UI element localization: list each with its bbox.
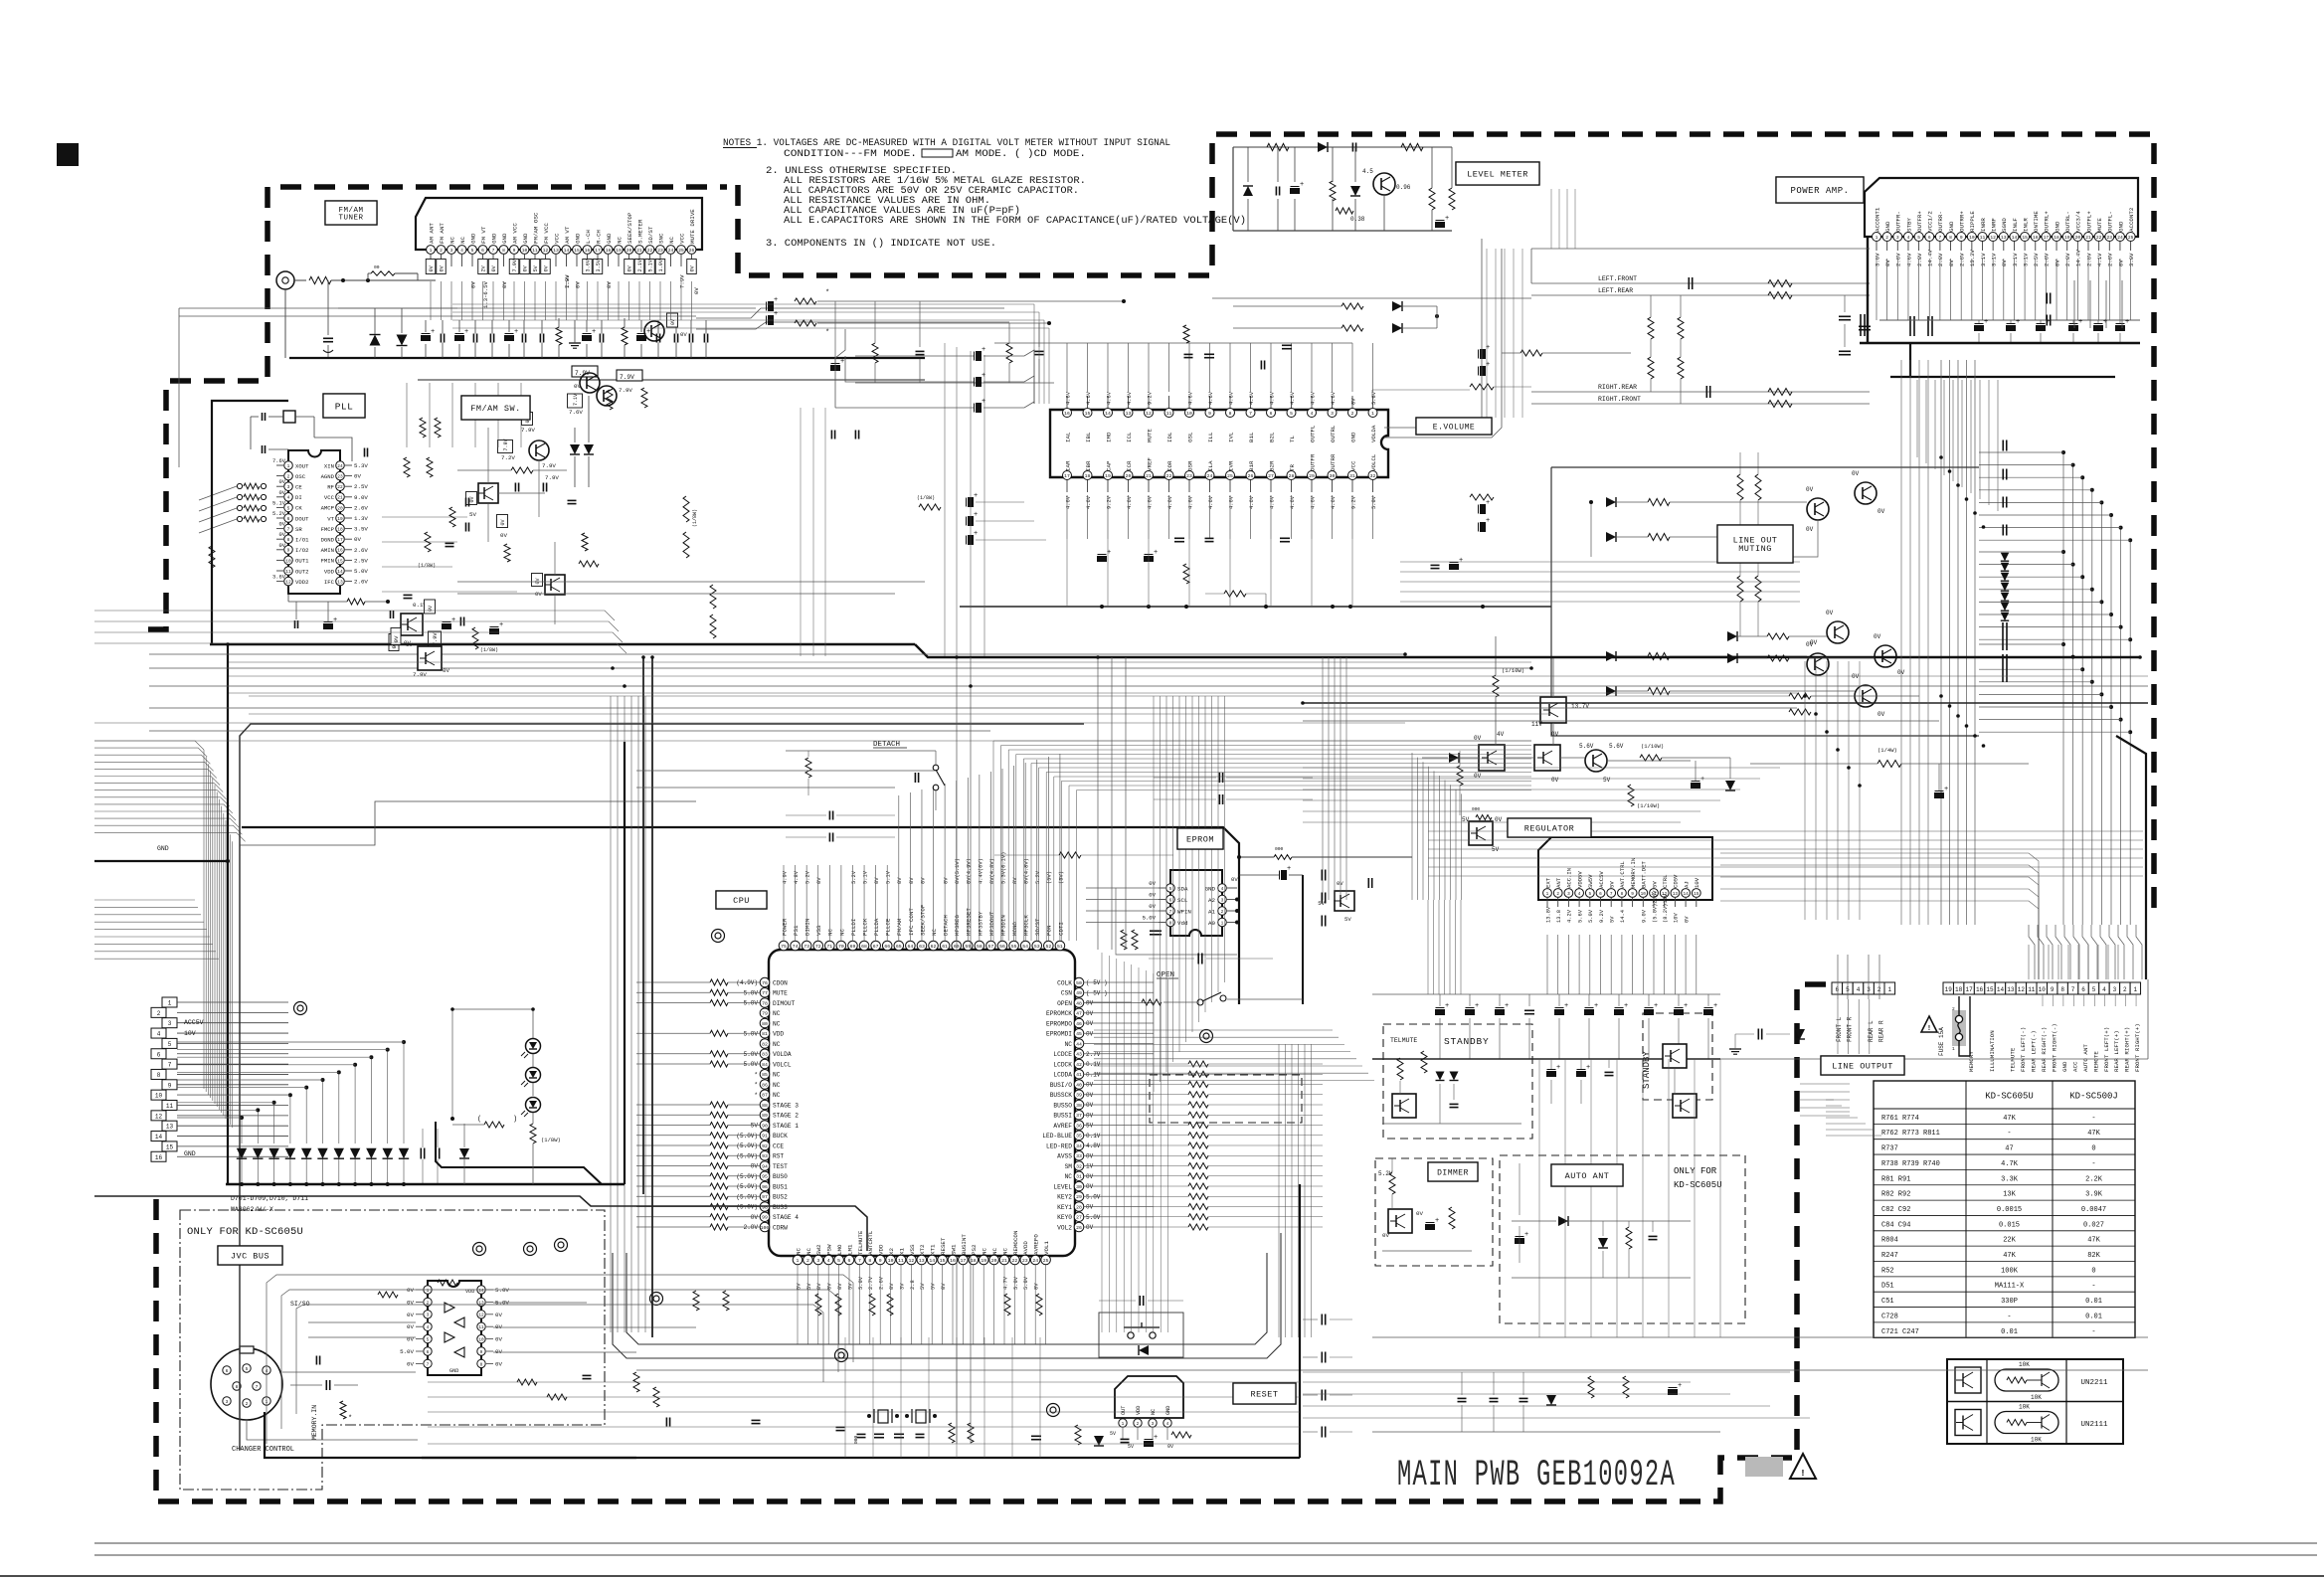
svg-text:0V: 0V [469, 496, 475, 502]
svg-text:R761 R774: R761 R774 [1881, 1115, 1919, 1123]
svg-text:20: 20 [337, 505, 343, 511]
wire regulator pin drops to cap bank [1546, 935, 1548, 994]
svg-text:13: 13 [2007, 986, 2015, 993]
svg-text:+: + [1586, 1064, 1590, 1072]
svg-text:12: 12 [155, 1113, 163, 1120]
svg-text:5.2V: 5.2V [1378, 1170, 1393, 1177]
svg-text:R81 R91: R81 R91 [1881, 1175, 1910, 1183]
svg-text:29: 29 [1076, 1194, 1082, 1200]
label RESET [1233, 1383, 1296, 1404]
resistor right of pin1 [1470, 384, 1494, 390]
svg-text:93: 93 [762, 1153, 768, 1159]
svg-text:0V: 0V [1350, 398, 1356, 405]
svg-text:3.1V: 3.1V [1990, 253, 1997, 266]
tuner pin 8 GND [499, 246, 508, 255]
detach switch [933, 765, 939, 771]
PLL pin 23 AGND [336, 471, 345, 480]
level meter resistors right [1429, 188, 1435, 210]
CPU pin 84 VOLCL [760, 1059, 770, 1069]
svg-text:LED-BLUE: LED-BLUE [1042, 1133, 1072, 1140]
wire 3 coupling caps to E.VOLUME left [977, 352, 982, 361]
dashed outline bottom frame [156, 984, 1830, 1501]
svg-text:7: 7 [1610, 892, 1613, 897]
E.VOLUME pin 6 B2L [1267, 409, 1276, 418]
ecap right of boxed transistor [443, 624, 451, 629]
svg-text:13: 13 [1673, 892, 1679, 897]
cap bottom pll [459, 617, 461, 626]
svg-text:4.6V: 4.6V [1290, 495, 1296, 509]
svg-text:10K: 10K [2019, 1404, 2030, 1411]
CPU pin 3 SW2 [813, 1255, 823, 1265]
svg-text:0V: 0V [407, 1360, 414, 1367]
svg-text:19: 19 [1105, 473, 1111, 479]
dashed box only for KD-SC605U auto-ant block [1500, 1155, 1745, 1323]
E.VOLUME pin 21 VREF [1145, 471, 1154, 480]
E.VOLUME pin 18 IBR [1083, 471, 1092, 480]
svg-text:9.0V: 9.0V [1642, 909, 1648, 923]
svg-text:OUTRL+: OUTRL+ [2044, 211, 2051, 232]
svg-text:0V: 0V [1948, 260, 1955, 266]
caps right below evolume [1431, 564, 1440, 566]
svg-text:AVREFO: AVREFO [1033, 1234, 1040, 1255]
svg-text:VCC: VCC [324, 494, 335, 501]
E.VOLUME pin 29 OUTFR [1308, 471, 1317, 480]
svg-text:NC: NC [459, 237, 466, 244]
svg-text:5: 5 [168, 1041, 172, 1048]
jvc nested frame 2 [281, 1290, 838, 1429]
E.VOLUME pin 23 GSR [1185, 471, 1194, 480]
svg-text:95: 95 [762, 1174, 768, 1180]
svg-text:NC: NC [1065, 1041, 1073, 1048]
CPU pin 98 BUS3 [760, 1202, 770, 1212]
bold line right side down [2116, 736, 2146, 979]
svg-text:BUS3: BUS3 [773, 1204, 788, 1211]
jvc nested frame 3 [296, 1305, 823, 1414]
junction dots power bundle [1939, 455, 1943, 459]
svg-text:91: 91 [762, 1134, 768, 1140]
svg-text:8: 8 [287, 537, 290, 543]
dashed box resistor pack right of CPU [1150, 1075, 1302, 1123]
svg-text:15: 15 [1085, 411, 1091, 417]
svg-text:+: + [982, 372, 985, 380]
svg-text:AGND: AGND [321, 473, 335, 480]
JVC IC pin 12 [477, 1311, 485, 1318]
svg-text:5V: 5V [1110, 1431, 1116, 1437]
label E.VOLUME top layer [1416, 418, 1492, 435]
svg-text:7.9V: 7.9V [619, 387, 632, 394]
svg-text:12: 12 [909, 1258, 915, 1264]
svg-text:XOUT: XOUT [295, 462, 309, 469]
svg-text:9.2V: 9.2V [1147, 391, 1153, 405]
bold staircase wire B [94, 1196, 867, 1251]
svg-text:9: 9 [168, 1082, 172, 1089]
ground bus under tuner bold [289, 357, 925, 359]
svg-text:STAGE 3: STAGE 3 [773, 1102, 799, 1109]
label EPROM top layer [1177, 828, 1223, 849]
svg-text:90: 90 [762, 1123, 768, 1129]
svg-text:+: + [1154, 1434, 1158, 1442]
reset IC pin 1 OUT [1119, 1419, 1127, 1427]
svg-text:2.8: 2.8 [910, 1280, 916, 1290]
svg-text:5.0V: 5.0V [495, 1287, 509, 1294]
wire fan right side [2062, 452, 2064, 925]
svg-text:PSW: PSW [826, 1244, 833, 1255]
svg-text:4.6V: 4.6V [1310, 391, 1316, 405]
wire regulator area top rails [1303, 702, 2148, 704]
power amp pin 14 INLF [2010, 233, 2019, 242]
svg-text:5V: 5V [1492, 846, 1500, 853]
transistor Q701 tuner [644, 321, 664, 341]
svg-text:13.8: 13.8 [1556, 910, 1562, 923]
level meter caps mid [1275, 187, 1277, 196]
svg-text:BUS0: BUS0 [773, 1173, 788, 1180]
svg-text:0V: 0V [500, 519, 506, 525]
svg-text:97: 97 [762, 1194, 768, 1200]
svg-text:MEMORY.IN: MEMORY.IN [1630, 858, 1637, 888]
tuner pin 22 SD/ST [645, 246, 654, 255]
svg-text:2.8V: 2.8V [2064, 253, 2071, 266]
svg-text:IVL: IVL [1227, 432, 1234, 442]
svg-text:(5V): (5V) [1047, 871, 1053, 884]
resistors on channels [1768, 280, 1792, 287]
wire auto ant feed [1519, 1163, 1520, 1215]
power amp pin 18 GND [2053, 233, 2061, 242]
horizontal bundle to detach top [993, 740, 1531, 742]
bold diode bus [226, 1183, 625, 1185]
wire evolume to notes bottom [1232, 147, 1234, 231]
svg-text:56: 56 [999, 944, 1005, 950]
svg-text:14: 14 [1997, 986, 2005, 993]
svg-text:0V: 0V [944, 877, 950, 884]
svg-text:0V: 0V [1810, 639, 1818, 646]
svg-text:12: 12 [285, 580, 291, 586]
svg-text:14.4: 14.4 [1620, 910, 1626, 923]
svg-text:24: 24 [337, 463, 343, 469]
svg-text:OUTRL: OUTRL [1330, 425, 1337, 442]
svg-text:AM VT: AM VT [564, 226, 571, 244]
E.VOLUME pin 32 VOLCL [1368, 471, 1377, 480]
svg-text:VCC: VCC [553, 233, 560, 244]
svg-text:62: 62 [931, 944, 937, 950]
svg-text:5.6V: 5.6V [1579, 743, 1594, 750]
label POWER AMP. [1776, 177, 1864, 203]
caps pair mid [1218, 773, 1220, 783]
E.VOLUME pin 20 ICR [1124, 471, 1133, 480]
svg-text:4.4V(0V): 4.4V(0V) [978, 858, 983, 884]
wire evolume right band [1400, 561, 1800, 563]
CPU pin 18 PS2 [969, 1255, 979, 1265]
svg-text:ALL E.CAPACITORS ARE SHOWN IN: ALL E.CAPACITORS ARE SHOWN IN THE FORM O… [784, 215, 1246, 226]
svg-text:0.01: 0.01 [2085, 1298, 2102, 1306]
svg-text:BATT.DET: BATT.DET [1641, 861, 1648, 888]
page corner registration square [57, 143, 79, 166]
svg-text:PLLDA: PLLDA [873, 918, 880, 936]
power amp pin 20 VCC3/4 [2073, 233, 2082, 242]
svg-text:LED-RED: LED-RED [1046, 1142, 1072, 1149]
svg-text:1: 1 [287, 463, 290, 469]
tuner pin 17 voltage 3.5V [593, 260, 603, 274]
svg-text:8: 8 [1949, 235, 1952, 241]
PLL pin 11 OUT2 [284, 567, 293, 576]
CPU pin 93 RST [760, 1150, 770, 1160]
label AUTO ANT top layer [1551, 1164, 1623, 1186]
svg-text:0V: 0V [495, 1336, 502, 1343]
svg-text:FM VCC: FM VCC [543, 223, 550, 244]
svg-text:5.0V: 5.0V [1086, 1214, 1101, 1221]
CPU pin 30 LEVEL [1074, 1181, 1084, 1191]
svg-text:*: * [825, 289, 829, 297]
svg-text:GND: GND [184, 1150, 196, 1157]
E.VOLUME pin 5 TL [1287, 409, 1296, 418]
CPU pin 6 LM1 [844, 1255, 854, 1265]
svg-text:+: + [1556, 1064, 1560, 1072]
svg-text:0V: 0V [690, 264, 696, 271]
cap at antenna [323, 337, 333, 339]
svg-text:EPROM: EPROM [1186, 834, 1214, 844]
svg-text:5.2V: 5.2V [851, 870, 857, 884]
svg-text:0V: 0V [1034, 1283, 1040, 1290]
svg-text:I/O2: I/O2 [295, 547, 308, 554]
svg-text:3.1V: 3.1V [2012, 253, 2019, 266]
svg-text:3.5V: 3.5V [354, 526, 368, 533]
svg-text:4.6V: 4.6V [1269, 391, 1275, 405]
svg-text:0V: 0V [1884, 260, 1891, 266]
svg-text:9.2V: 9.2V [1599, 909, 1605, 923]
level meter diode [1318, 142, 1328, 152]
E.VOLUME IC body [1050, 410, 1388, 477]
electrolytic capacitor tuner decoupling [583, 336, 592, 341]
PLL pin 8 I/O1 [284, 535, 293, 544]
tuner pin 2 FM ANT [437, 246, 446, 255]
svg-text:20: 20 [991, 1258, 997, 1264]
svg-text:67: 67 [873, 944, 879, 950]
cap above push switch [1139, 1296, 1141, 1306]
svg-text:76: 76 [762, 980, 768, 986]
wire verticals from tuner mid down [944, 343, 946, 656]
wire horizontal rails tuner area [179, 307, 756, 309]
tuner pin 14 AM VT [562, 246, 571, 255]
svg-text:(1/8W): (1/8W) [418, 563, 436, 569]
svg-text:5.1V: 5.1V [862, 870, 868, 884]
tuner pin 2 voltage 0V [437, 260, 447, 274]
svg-text:MUTE: MUTE [1146, 429, 1153, 442]
JVC IC pin 7 [424, 1359, 432, 1367]
svg-text:4.7V: 4.7V [1002, 1276, 1008, 1290]
svg-text:3.9K: 3.9K [2085, 1191, 2103, 1199]
svg-text:75: 75 [781, 944, 787, 950]
svg-text:BUSI/O: BUSI/O [1050, 1082, 1073, 1089]
diode row D701-D711 [237, 1148, 247, 1158]
svg-text:5V: 5V [1609, 881, 1616, 888]
svg-text:2: 2 [246, 1401, 249, 1407]
svg-text:COLK: COLK [1057, 979, 1072, 986]
PLL pin 12 VDD2 [284, 577, 293, 586]
auto ant diode v [1598, 1238, 1608, 1248]
svg-text:(8.2V)10V: (8.2V)10V [1663, 893, 1669, 923]
svg-text:17: 17 [961, 1258, 967, 1264]
svg-text:!: ! [1927, 1025, 1931, 1033]
svg-text:NC: NC [773, 1010, 781, 1017]
svg-text:2.6V: 2.6V [879, 1276, 885, 1290]
svg-text:0V: 0V [1012, 877, 1018, 884]
svg-text:2: 2 [440, 248, 443, 254]
svg-text:13.8V: 13.8V [1545, 906, 1551, 923]
resistors mid pll [425, 532, 431, 552]
svg-text:7.6V: 7.6V [569, 409, 583, 416]
svg-text:0V: 0V [544, 264, 550, 271]
resistor tuner decoupling [556, 327, 562, 345]
svg-text:(5.0V): (5.0V) [736, 1204, 758, 1211]
svg-text:52: 52 [1045, 944, 1051, 950]
svg-text:10: 10 [2039, 986, 2047, 993]
svg-text:+: + [1435, 1217, 1439, 1225]
svg-text:3.1V: 3.1V [2022, 253, 2029, 266]
power amp pin 19 OUTRL- [2062, 233, 2071, 242]
svg-text:63: 63 [919, 944, 925, 950]
svg-text:CONDITION---FM MODE.: CONDITION---FM MODE. [784, 148, 917, 159]
svg-text:4.6V: 4.6V [1290, 391, 1296, 405]
svg-text:89: 89 [762, 1113, 768, 1119]
svg-text:FRONT LEFT(+): FRONT LEFT(+) [2103, 1027, 2110, 1072]
tuner pin 1 AM ANT [427, 246, 436, 255]
svg-text:7: 7 [1939, 235, 1942, 241]
svg-text:+: + [1475, 1002, 1479, 1010]
svg-text:58: 58 [977, 944, 983, 950]
svg-text:11: 11 [898, 1258, 904, 1264]
svg-text:47K: 47K [2087, 1130, 2100, 1138]
CPU pin 61 DETACH [940, 941, 950, 951]
svg-text:BUSSO: BUSSO [1053, 1102, 1072, 1109]
svg-text:KEY1: KEY1 [1057, 1204, 1072, 1211]
svg-text:19: 19 [2064, 235, 2070, 241]
boxed transistor pll bottom [401, 614, 423, 635]
CPU pin 7 TELMUTE [855, 1255, 865, 1265]
tuner pin 16 L-CH [583, 246, 592, 255]
EPROM pin 1 A0 [1218, 918, 1227, 927]
svg-text:XT1: XT1 [930, 1244, 937, 1255]
svg-text:L-CH: L-CH [585, 230, 592, 244]
dashed outline FM/AM tuner block [148, 187, 727, 629]
svg-text:BUCK: BUCK [773, 1133, 788, 1140]
resistor right of Q702 [607, 390, 613, 410]
CPU pin 34 LED-RED [1074, 1141, 1084, 1150]
svg-text:ACC: ACC [2071, 1061, 2078, 1072]
svg-text:9: 9 [480, 1350, 483, 1355]
svg-text:6: 6 [1270, 411, 1273, 417]
svg-text:+: + [1654, 1002, 1658, 1010]
svg-text:VDD: VDD [878, 1244, 885, 1255]
svg-text:+: + [774, 310, 778, 318]
svg-text:4: 4 [1311, 411, 1314, 417]
svg-text:10V: 10V [184, 1030, 196, 1037]
svg-text:10K: 10K [2019, 1361, 2030, 1368]
svg-text:+: + [1678, 1382, 1682, 1390]
diodes to the right of notes [1341, 303, 1363, 309]
svg-text:EPROMCK: EPROMCK [1046, 1010, 1072, 1017]
svg-text:KD-SC605U: KD-SC605U [1985, 1092, 2034, 1102]
svg-text:25: 25 [2128, 235, 2134, 241]
svg-text:+: + [464, 328, 468, 336]
legend transistor 2 [1955, 1410, 1981, 1436]
svg-text:GND: GND [1349, 432, 1356, 442]
svg-text:7: 7 [492, 248, 495, 254]
svg-text:MUTE: MUTE [773, 990, 788, 997]
svg-text:OUTFR+: OUTFR+ [1916, 211, 1923, 232]
regulator pin 3 ACC.IN [1564, 889, 1573, 898]
svg-text:5.3V(0.1V): 5.3V(0.1V) [1000, 852, 1006, 884]
E.VOLUME pin 12 MUTE [1145, 409, 1154, 418]
auto ant diode h [1558, 1216, 1568, 1226]
level meter bottom rail [1233, 230, 1452, 232]
svg-text:7: 7 [1169, 909, 1172, 915]
svg-text:NC: NC [1065, 1173, 1073, 1180]
svg-text:RIGHT.FRONT: RIGHT.FRONT [1598, 396, 1641, 403]
regulator pin 12 CTRL [1660, 889, 1669, 898]
CPU pin 57 MP3DOUT [986, 941, 996, 951]
resistor above cpu [1059, 852, 1081, 858]
svg-text:92: 92 [762, 1143, 768, 1149]
ecap right of regulator [1935, 793, 1944, 798]
CPU pin 80 NC [760, 1018, 770, 1028]
power amp pin 2 GND [1882, 233, 1891, 242]
svg-text:KD-SC500J: KD-SC500J [2069, 1092, 2118, 1102]
svg-text:83: 83 [762, 1052, 768, 1058]
svg-text:41: 41 [1076, 1072, 1082, 1078]
boxed transistor reg 2 [1534, 745, 1560, 771]
svg-text:7: 7 [427, 1362, 430, 1367]
svg-text:16: 16 [2033, 235, 2039, 241]
svg-text:VCC: VCC [1349, 460, 1356, 471]
svg-text:4.6V: 4.6V [1065, 495, 1071, 509]
svg-text:IDL: IDL [1166, 432, 1173, 442]
svg-text:NC: NC [773, 1082, 781, 1089]
tuner pin 26 voltage 0V [687, 260, 697, 274]
svg-text:GSR: GSR [1186, 460, 1193, 471]
CPU pin 9 VDD [875, 1255, 885, 1265]
svg-text:5.0V: 5.0V [744, 1030, 759, 1037]
label PLL top layer [323, 394, 365, 418]
capacitor tuner decoupling [655, 334, 657, 343]
transistor cluster top right of regulator [1727, 631, 1737, 641]
svg-text:KD-SC605U: KD-SC605U [1674, 1180, 1722, 1190]
svg-text:INLF: INLF [2012, 218, 2019, 232]
svg-text:+: + [974, 530, 978, 538]
svg-text:MP3STBY: MP3STBY [977, 911, 983, 936]
svg-text:21: 21 [2085, 235, 2091, 241]
JVC IC pin 9 [477, 1347, 485, 1355]
svg-text:24: 24 [668, 248, 674, 254]
svg-text:B2L: B2L [1268, 432, 1275, 442]
CPU pin 94 TEST [760, 1161, 770, 1171]
svg-text:0: 0 [2091, 1267, 2095, 1275]
jvc resistors [378, 1292, 398, 1298]
svg-text:PLLCE: PLLCE [885, 918, 892, 936]
svg-text:TUNER: TUNER [338, 214, 363, 222]
regulator pin 7 5V [1607, 889, 1616, 898]
svg-text:+: + [1505, 1002, 1509, 1010]
CPU pin 69 PLLDI [848, 941, 858, 951]
svg-text:5V: 5V [1610, 916, 1616, 923]
resistor detach area [1457, 766, 1463, 786]
svg-text:20: 20 [1126, 473, 1132, 479]
svg-text:OUTFL-: OUTFL- [2107, 211, 2114, 232]
svg-text:STBY: STBY [1905, 218, 1912, 232]
svg-text:6: 6 [1599, 892, 1602, 897]
label REGULATOR [1508, 818, 1591, 837]
svg-text:4: 4 [1578, 892, 1581, 897]
PLL pin 10 OUT1 [284, 556, 293, 565]
power amp pin 10 RIPPLE [1967, 233, 1976, 242]
